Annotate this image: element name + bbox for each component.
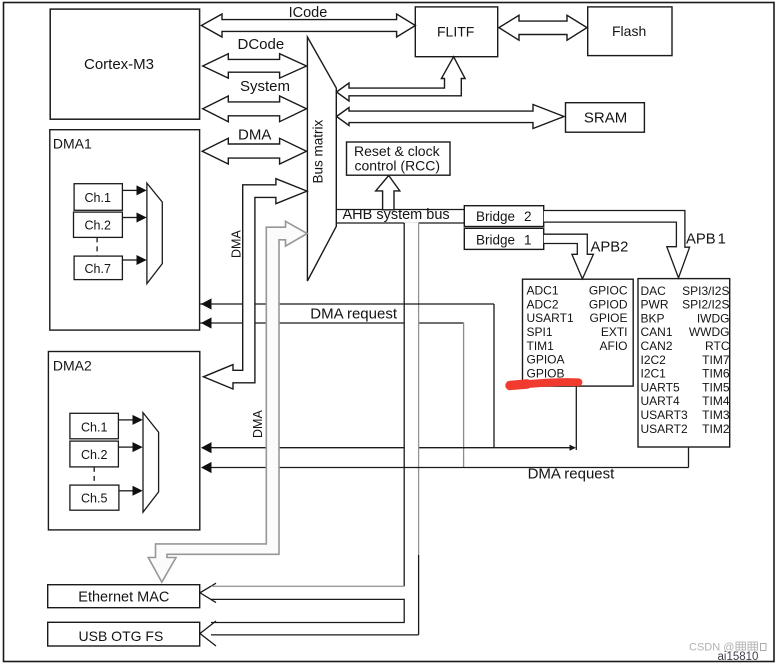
APB1 peripheral list <box>641 284 730 436</box>
System double fat arrow <box>203 96 307 122</box>
svg-text:TIM4: TIM4 <box>702 394 730 408</box>
svg-text:ADC1: ADC1 <box>527 284 559 298</box>
wire y=447.7 left segment into DMA2 <box>202 447 404 449</box>
Bridge2 to APB1 down arrow <box>544 211 690 278</box>
svg-text:ai15810: ai15810 <box>718 651 759 663</box>
svg-text:GPIOC: GPIOC <box>589 284 628 298</box>
svg-text:TIM1: TIM1 <box>527 339 555 353</box>
DMA1 Ch.2 box <box>74 212 123 237</box>
APB2 peripherals box <box>523 279 634 386</box>
Ethernet MAC master bent fat channel to bus matrix (gray) <box>148 221 307 582</box>
svg-text:DMA request: DMA request <box>528 465 616 482</box>
svg-text:DMA1: DMA1 <box>53 135 92 151</box>
svg-text:Ch.7: Ch.7 <box>85 262 111 276</box>
wire DMA request bottom y=467.5 <box>202 467 689 469</box>
svg-text:UART4: UART4 <box>641 394 680 408</box>
arrowhead into DMA1 y=304 <box>201 298 212 309</box>
arrow Ch.2 to mux <box>118 446 133 448</box>
svg-text:SPI1: SPI1 <box>527 325 553 339</box>
RCC up arrow <box>376 176 400 210</box>
svg-text:DMA: DMA <box>230 230 244 258</box>
AHB system bus upper line <box>336 209 464 211</box>
svg-text:Ch.2: Ch.2 <box>85 219 111 233</box>
svg-text:PWR: PWR <box>641 298 669 312</box>
svg-text:EXTI: EXTI <box>601 325 628 339</box>
dashed link Ch.2..Ch.7 <box>96 237 98 256</box>
Ethernet MAC box <box>48 585 200 608</box>
svg-text:UART5: UART5 <box>641 380 680 394</box>
svg-text:Bus matrix: Bus matrix <box>311 119 326 183</box>
svg-text:TIM5: TIM5 <box>702 380 730 394</box>
svg-text:Bridge: Bridge <box>476 209 515 224</box>
wire DMA request from APB2: vertical from APB2 box bottom <box>575 386 577 450</box>
wire vertical x=494 <box>493 304 495 448</box>
svg-text:System: System <box>240 78 290 95</box>
Bridge 2 box <box>464 206 543 227</box>
DMA2 Ch.2 box <box>70 441 119 467</box>
FLITF-Flash double fat arrow <box>499 15 587 40</box>
svg-text:Ch.1: Ch.1 <box>85 191 111 205</box>
APB1 peripherals box <box>638 279 730 447</box>
svg-text:DMA request: DMA request <box>310 305 398 322</box>
svg-text:TIM6: TIM6 <box>702 367 730 381</box>
DMA1 Ch.7 box <box>74 256 122 280</box>
svg-text:GPIOA: GPIOA <box>527 353 565 367</box>
SRAM box <box>566 103 645 133</box>
arrow Ch.5 to mux <box>119 490 133 492</box>
svg-text:Ethernet MAC: Ethernet MAC <box>78 590 169 606</box>
svg-text:DMA: DMA <box>251 410 265 438</box>
svg-text:DAC: DAC <box>641 284 667 298</box>
svg-text:ADC2: ADC2 <box>527 297 559 311</box>
DCode double fat arrow <box>203 54 307 78</box>
svg-text:DMA2: DMA2 <box>53 358 92 374</box>
FLITF up channel from bus matrix <box>337 57 466 101</box>
USB OTG FS slave channel: open arrow + bottom border <box>200 621 216 646</box>
bus matrix polygon <box>307 37 336 281</box>
wire vertical from APB1 box bottom <box>688 447 690 468</box>
arrow Ch.2 to mux <box>122 217 137 219</box>
svg-text:CAN2: CAN2 <box>641 339 673 353</box>
wire vertical x=418.6 upper (gray) <box>418 223 420 555</box>
DMA1 box <box>50 130 200 330</box>
dashed link Ch.2..Ch.5 <box>93 467 95 485</box>
wire vertical x=404.2 (AHB down to Ethernet MAC) <box>403 223 405 586</box>
arrow Ch.1 to mux <box>118 419 133 421</box>
arrow Ch.7 to mux <box>122 259 137 261</box>
svg-text:AFIO: AFIO <box>599 339 627 353</box>
svg-text:SPI3/I2S: SPI3/I2S <box>682 284 729 298</box>
svg-text:USART3: USART3 <box>641 408 688 422</box>
DMA2 Ch.1 box <box>70 413 119 439</box>
svg-text:APB2: APB2 <box>591 240 629 256</box>
DMA1 Ch.1 box <box>74 184 122 211</box>
svg-text:Ch.2: Ch.2 <box>81 448 107 462</box>
Reset & clock control (RCC) box <box>347 142 451 175</box>
svg-text:control (RCC): control (RCC) <box>355 158 441 174</box>
svg-text:BKP: BKP <box>641 311 665 325</box>
AHB-to-peripherals vertical channel (white interior) <box>404 222 418 635</box>
Ethernet MAC slave channel from AHB: open arrow + borders <box>200 583 216 602</box>
svg-text:Bridge: Bridge <box>476 233 515 248</box>
svg-text:Ch.1: Ch.1 <box>81 421 107 435</box>
Bridge1 to APB2 down arrow <box>544 234 594 279</box>
SRAM channel from bus matrix <box>337 105 565 129</box>
svg-text:USART2: USART2 <box>641 422 688 436</box>
svg-text:WWDG: WWDG <box>689 325 730 339</box>
DMA2 mux shape <box>143 413 159 513</box>
arrow Ch.1 to mux <box>122 189 137 191</box>
svg-text:Cortex-M3: Cortex-M3 <box>84 56 154 73</box>
APB2 peripheral list <box>527 284 628 381</box>
svg-text:Ch.5: Ch.5 <box>81 492 107 506</box>
wire DMA request to DMA1 (lower, y=323) <box>200 322 464 324</box>
svg-text:USART1: USART1 <box>527 311 574 325</box>
svg-text:CAN1: CAN1 <box>641 325 673 339</box>
Bridge 1 box <box>464 228 543 249</box>
svg-text:GPIOD: GPIOD <box>589 297 628 311</box>
DMA2 bent fat channel to bus matrix <box>203 179 307 389</box>
svg-text:SRAM: SRAM <box>584 110 627 127</box>
svg-text:AHB system bus: AHB system bus <box>343 207 450 223</box>
svg-text:TIM2: TIM2 <box>702 422 730 436</box>
svg-text:1: 1 <box>524 233 532 248</box>
svg-text:I2C2: I2C2 <box>641 353 667 367</box>
arrowhead into DMA2 y=447.7 <box>201 442 212 453</box>
svg-text:FLITF: FLITF <box>437 24 474 40</box>
AHB system bus lower line <box>336 222 464 224</box>
FLITF box <box>415 7 497 57</box>
wire DMA request to DMA1 (upper, y=304) <box>200 303 494 305</box>
svg-text:USB OTG FS: USB OTG FS <box>79 628 164 644</box>
svg-text:IWDG: IWDG <box>697 311 730 325</box>
wire vertical x=418.6 lower <box>418 555 420 635</box>
wire vertical x=463.6 (gray) <box>463 323 465 468</box>
svg-text:I2C1: I2C1 <box>641 367 667 381</box>
DMA2 box <box>48 352 199 530</box>
USB OTG FS box <box>48 622 200 646</box>
svg-text:RTC: RTC <box>705 339 730 353</box>
svg-text:GPIOE: GPIOE <box>589 311 627 325</box>
svg-text:DCode: DCode <box>238 36 285 53</box>
DMA2 Ch.5 box <box>70 485 119 510</box>
Cortex-M3 box <box>50 9 199 119</box>
red marker annotation under GPIOA/GPIOB <box>510 382 579 385</box>
svg-text:SPI2/I2S: SPI2/I2S <box>682 298 729 312</box>
svg-text:DMA: DMA <box>238 126 271 143</box>
svg-text:Flash: Flash <box>612 23 646 39</box>
wire y=447.7 right segment with small arrow into x=576 <box>419 447 573 449</box>
svg-text:TIM3: TIM3 <box>702 408 730 422</box>
DMA1 double fat arrow <box>202 138 306 164</box>
DMA1 mux shape <box>147 183 162 284</box>
svg-text:ICode: ICode <box>289 5 328 21</box>
ICode double fat arrow <box>201 14 415 37</box>
svg-text:APB1: APB1 <box>686 232 726 248</box>
svg-text:GPIOB: GPIOB <box>527 366 565 380</box>
arrowhead into DMA1 y=323 <box>201 317 212 328</box>
svg-text:TIM7: TIM7 <box>702 353 730 367</box>
svg-text:2: 2 <box>524 209 532 224</box>
Flash box <box>588 7 672 56</box>
arrowhead into DMA2 y=467.5 <box>201 462 212 473</box>
